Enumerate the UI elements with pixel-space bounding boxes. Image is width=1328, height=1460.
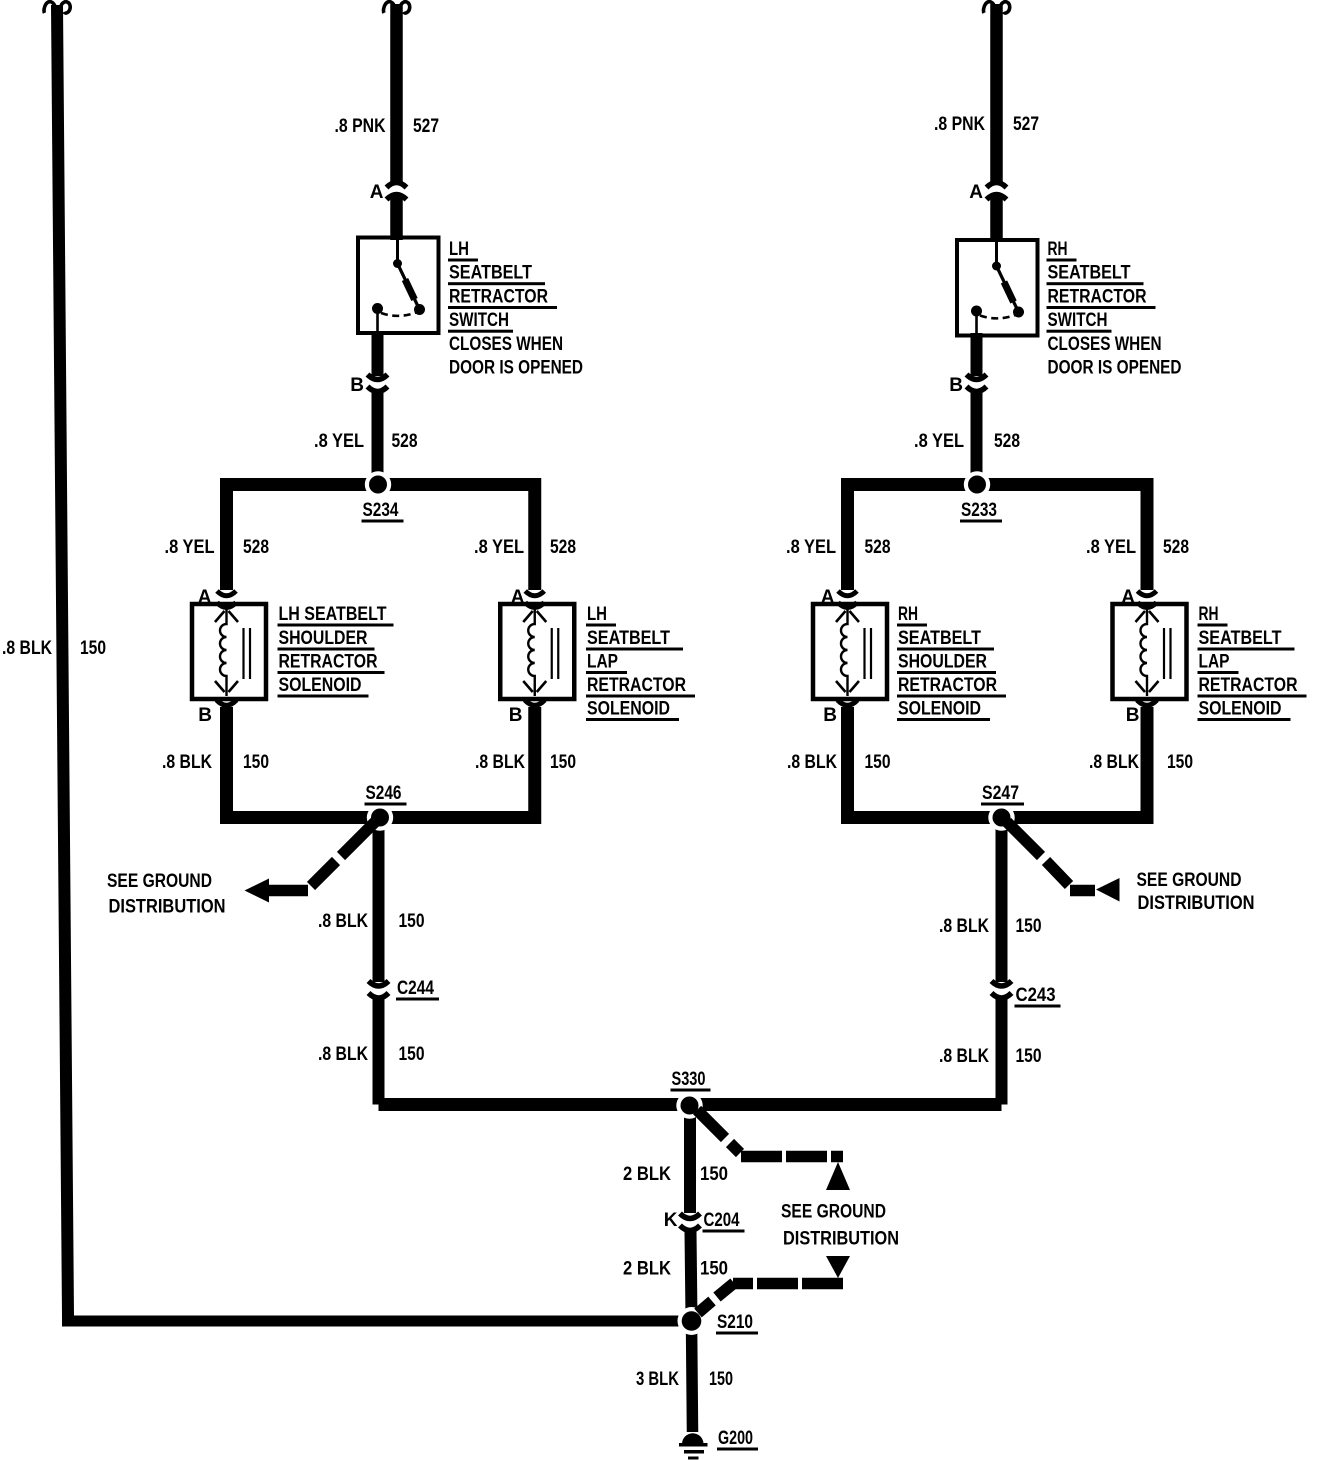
svg-text:DISTRIBUTION: DISTRIBUTION xyxy=(783,1229,899,1250)
connector C204 in-line xyxy=(680,1214,700,1231)
node S234 splice dot xyxy=(365,471,391,497)
wire 2 BLK 150 from C204 to S210 xyxy=(691,1232,692,1319)
wire LH switch pin B lead xyxy=(372,331,384,376)
connector C244 in-line xyxy=(369,981,389,998)
wire .8 BLK 150 from C243 to S330 xyxy=(996,999,1008,1105)
wire dashed horizontal (S210 ground distribution) xyxy=(733,1278,843,1290)
svg-text:RETRACTOR: RETRACTOR xyxy=(1199,675,1298,696)
svg-text:SOLENOID: SOLENOID xyxy=(279,675,362,696)
svg-text:LH: LH xyxy=(587,604,607,625)
svg-text:.8 YEL: .8 YEL xyxy=(314,431,364,452)
svg-text:B: B xyxy=(1126,705,1140,726)
svg-text:150: 150 xyxy=(399,911,425,932)
svg-text:SEATBELT: SEATBELT xyxy=(1048,263,1131,284)
wire left ground rail .8 BLK 150 vertical xyxy=(57,5,68,1316)
wire 3 BLK 150 from S210 to G200 xyxy=(692,1321,693,1432)
svg-text:CLOSES WHEN: CLOSES WHEN xyxy=(449,334,563,355)
svg-text:RH: RH xyxy=(1199,604,1219,625)
svg-text:RETRACTOR: RETRACTOR xyxy=(1048,287,1147,308)
svg-text:RH: RH xyxy=(898,604,918,625)
wire .8 BLK 150 from S246 to C244 xyxy=(373,818,385,982)
node S247 splice dot xyxy=(988,804,1014,830)
svg-text:S246: S246 xyxy=(366,783,402,804)
svg-text:527: 527 xyxy=(1013,114,1039,135)
svg-text:DISTRIBUTION: DISTRIBUTION xyxy=(1138,893,1255,914)
svg-text:528: 528 xyxy=(550,537,576,558)
svg-text:.8 BLK: .8 BLK xyxy=(318,1044,368,1065)
solenoid LH seatbelt lap retractor solenoid box xyxy=(500,591,574,705)
svg-text:RH: RH xyxy=(1048,239,1068,260)
svg-text:.8 BLK: .8 BLK xyxy=(162,752,212,773)
svg-text:2 BLK: 2 BLK xyxy=(623,1164,671,1185)
switch RH seatbelt retractor switch box xyxy=(957,240,1038,336)
wire dashed from S247 to ground distribution arrow (diagonal) xyxy=(1007,822,1069,885)
svg-text:SHOULDER: SHOULDER xyxy=(898,652,987,673)
svg-text:B: B xyxy=(509,705,523,726)
svg-text:150: 150 xyxy=(1016,916,1042,937)
wire LH feed below connector A xyxy=(390,197,403,240)
svg-text:150: 150 xyxy=(1016,1046,1042,1067)
svg-text:SOLENOID: SOLENOID xyxy=(898,699,981,720)
wire LH feed curl (top, continues off-page) xyxy=(384,2,410,13)
svg-text:150: 150 xyxy=(700,1164,728,1185)
arrow middle upper see-ground-distribution (up-pointing triangle) xyxy=(826,1162,850,1190)
connector in-line B (LH switch output) xyxy=(368,375,388,392)
svg-text:C244: C244 xyxy=(397,978,434,999)
svg-text:B: B xyxy=(949,375,963,396)
svg-text:SEE GROUND: SEE GROUND xyxy=(107,871,212,892)
wire dashed horizontal to RH ground distribution arrow xyxy=(1070,885,1095,897)
svg-text:.8 BLK: .8 BLK xyxy=(475,752,525,773)
wire S210 bar from left rail to S210 splice xyxy=(62,1316,692,1327)
connector in-line B (RH switch output) xyxy=(967,375,987,392)
svg-text:SEATBELT: SEATBELT xyxy=(449,263,532,284)
svg-text:DISTRIBUTION: DISTRIBUTION xyxy=(109,897,226,918)
svg-text:.8 BLK: .8 BLK xyxy=(2,638,52,659)
svg-text:DOOR IS OPENED: DOOR IS OPENED xyxy=(1048,358,1182,379)
wire RH feed below connector A xyxy=(990,197,1003,242)
svg-text:2 BLK: 2 BLK xyxy=(623,1259,671,1280)
svg-text:RETRACTOR: RETRACTOR xyxy=(279,652,378,673)
svg-text:150: 150 xyxy=(709,1369,733,1390)
svg-text:.8 YEL: .8 YEL xyxy=(1086,537,1136,558)
svg-text:528: 528 xyxy=(994,431,1020,452)
connector in-line A (LH feed) xyxy=(387,183,407,200)
svg-text:150: 150 xyxy=(243,752,269,773)
svg-text:SEATBELT: SEATBELT xyxy=(898,628,981,649)
svg-text:.8 YEL: .8 YEL xyxy=(786,537,836,558)
svg-text:SOLENOID: SOLENOID xyxy=(1199,699,1282,720)
solenoid RH seatbelt lap retractor solenoid box xyxy=(1113,591,1187,705)
wire S330 splice bar (joins LH and RH ground runs) xyxy=(379,1098,1002,1111)
svg-text:S247: S247 xyxy=(982,783,1019,804)
svg-text:S233: S233 xyxy=(961,500,997,521)
svg-text:528: 528 xyxy=(865,537,891,558)
wire .8 YEL 528 from LH switch B to S234 xyxy=(372,393,384,480)
svg-text:3 BLK: 3 BLK xyxy=(636,1369,679,1390)
svg-text:B: B xyxy=(823,705,837,726)
node S246 splice dot xyxy=(367,804,393,830)
svg-text:RETRACTOR: RETRACTOR xyxy=(898,675,997,696)
switch LH seatbelt retractor switch box xyxy=(358,238,439,334)
svg-text:SEE GROUND: SEE GROUND xyxy=(1137,870,1242,891)
svg-text:LH: LH xyxy=(449,239,469,260)
svg-text:C243: C243 xyxy=(1016,985,1056,1006)
wire dashed from S210 to middle ground distribution arrow xyxy=(698,1283,734,1313)
svg-text:B: B xyxy=(198,705,212,726)
svg-text:.8 PNK: .8 PNK xyxy=(934,114,985,135)
wire RH loop lower (S247 splice bar with two branch risers) xyxy=(848,707,1148,818)
svg-text:150: 150 xyxy=(399,1044,425,1065)
connector C243 in-line xyxy=(992,981,1012,998)
node S330 splice dot xyxy=(676,1092,702,1118)
svg-text:CLOSES WHEN: CLOSES WHEN xyxy=(1048,334,1162,355)
svg-text:.8 YEL: .8 YEL xyxy=(165,537,215,558)
svg-text:S234: S234 xyxy=(363,500,399,521)
svg-text:.8 YEL: .8 YEL xyxy=(474,537,524,558)
svg-text:SEATBELT: SEATBELT xyxy=(587,628,670,649)
wire dashed horizontal (S330 ground distribution) xyxy=(741,1151,843,1163)
svg-text:SEE GROUND: SEE GROUND xyxy=(781,1202,886,1223)
svg-text:.8 BLK: .8 BLK xyxy=(939,1046,989,1067)
svg-text:SOLENOID: SOLENOID xyxy=(587,699,670,720)
svg-text:.8 YEL: .8 YEL xyxy=(914,431,964,452)
wire .8 BLK 150 from S247 to C243 xyxy=(996,818,1008,982)
wire dashed horizontal to LH ground distribution arrow xyxy=(268,885,308,897)
wire RH switch pin B lead xyxy=(971,333,983,376)
solenoid LH seatbelt shoulder retractor solenoid box xyxy=(192,591,266,705)
wire RH loop upper (S233 splice bar with two branch drops) xyxy=(848,485,1148,591)
svg-text:528: 528 xyxy=(392,431,418,452)
svg-text:528: 528 xyxy=(243,537,269,558)
wire dashed from S330 to middle ground distribution arrow xyxy=(697,1110,740,1153)
svg-text:150: 150 xyxy=(1167,752,1193,773)
arrow middle lower see-ground-distribution (down-pointing triangle) xyxy=(826,1256,850,1278)
svg-text:K: K xyxy=(664,1210,678,1231)
svg-text:150: 150 xyxy=(865,752,891,773)
svg-text:.8 BLK: .8 BLK xyxy=(1089,752,1139,773)
wire RH feed .8 PNK 527 vertical xyxy=(990,4,1003,182)
svg-text:RETRACTOR: RETRACTOR xyxy=(449,287,548,308)
wire RH feed curl (top, continues off-page) xyxy=(984,2,1010,13)
svg-text:S210: S210 xyxy=(717,1312,753,1333)
svg-text:.8 BLK: .8 BLK xyxy=(939,916,989,937)
wire LH feed .8 PNK 527 vertical xyxy=(390,4,403,182)
svg-text:G200: G200 xyxy=(718,1428,753,1449)
node S233 splice dot xyxy=(964,471,990,497)
svg-text:.8 PNK: .8 PNK xyxy=(335,116,386,137)
svg-text:A: A xyxy=(370,182,384,203)
connector in-line A (RH feed) xyxy=(987,183,1007,200)
arrow LH see-ground-distribution (left-pointing triangle) xyxy=(245,879,270,903)
svg-text:.8 BLK: .8 BLK xyxy=(318,911,368,932)
arrow RH see-ground-distribution (left-pointing triangle) xyxy=(1096,878,1120,902)
svg-text:SEATBELT: SEATBELT xyxy=(1199,628,1282,649)
svg-text:150: 150 xyxy=(80,638,106,659)
svg-text:B: B xyxy=(350,375,364,396)
svg-text:SHOULDER: SHOULDER xyxy=(279,628,368,649)
svg-text:150: 150 xyxy=(700,1259,728,1280)
wire left ground rail curl (top, continues off-page) xyxy=(44,2,70,13)
svg-text:RETRACTOR: RETRACTOR xyxy=(587,675,686,696)
svg-text:.8 BLK: .8 BLK xyxy=(787,752,837,773)
svg-text:C204: C204 xyxy=(704,1210,740,1231)
ground G200 symbol xyxy=(679,1433,708,1459)
wire LH loop lower (S246 splice bar with two branch risers) xyxy=(227,707,535,818)
svg-text:150: 150 xyxy=(550,752,576,773)
svg-text:DOOR IS OPENED: DOOR IS OPENED xyxy=(449,358,583,379)
wire LH loop upper (S234 splice bar with two branch drops) xyxy=(227,485,535,591)
svg-text:A: A xyxy=(969,182,983,203)
svg-text:528: 528 xyxy=(1163,537,1189,558)
svg-text:SWITCH: SWITCH xyxy=(1048,310,1108,331)
wire dashed from S246 to ground distribution arrow (diagonal) xyxy=(311,822,375,886)
svg-text:527: 527 xyxy=(413,116,439,137)
svg-text:S330: S330 xyxy=(672,1069,706,1090)
wire .8 BLK 150 from C244 to S330 xyxy=(373,999,385,1105)
solenoid RH seatbelt shoulder retractor solenoid box xyxy=(813,591,887,705)
wire .8 YEL 528 from RH switch B to S233 xyxy=(971,393,983,480)
svg-text:SWITCH: SWITCH xyxy=(449,310,509,331)
wire 2 BLK 150 from S330 to C204 xyxy=(684,1105,696,1213)
svg-text:LAP: LAP xyxy=(587,652,618,673)
node S210 splice dot xyxy=(678,1307,706,1335)
svg-text:LAP: LAP xyxy=(1199,652,1230,673)
svg-text:LH SEATBELT: LH SEATBELT xyxy=(279,604,387,625)
